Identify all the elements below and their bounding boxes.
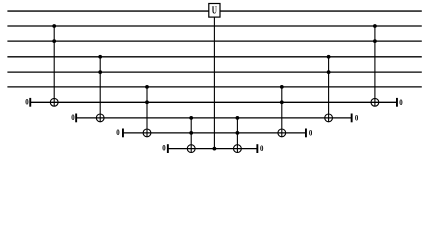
- ancilla A3 left |0> preparation bar: [122, 129, 124, 138]
- ancilla A2 left |0> preparation bar: [75, 114, 77, 123]
- toffoli T2m control dot on q4: [327, 55, 331, 59]
- svg-text:0: 0: [25, 97, 28, 106]
- ancilla A2 right termination bar: [351, 114, 353, 123]
- svg-text:0: 0: [162, 144, 165, 153]
- toffoli T1 vertical wire: [53, 26, 55, 106]
- svg-text:0: 0: [355, 113, 358, 122]
- toffoli T1 control dot on q2: [52, 24, 56, 28]
- toffoli T2 target on A2: [96, 114, 104, 122]
- toffoli T4m target on A4: [234, 145, 242, 153]
- toffoli T1m vertical wire (uncompute): [374, 26, 376, 106]
- toffoli T1m control dot on q3: [373, 39, 377, 43]
- toffoli T3m vertical wire (uncompute): [281, 87, 283, 137]
- svg-text:U: U: [212, 5, 217, 16]
- ancilla A1 right termination bar: [396, 98, 398, 107]
- toffoli T4m control dot on A2: [236, 116, 240, 120]
- svg-text:0: 0: [116, 128, 119, 137]
- toffoli T3 control dot on q6: [145, 85, 149, 89]
- ancilla A3 right termination bar: [305, 129, 307, 138]
- toffoli T4 control dot on A2: [189, 116, 193, 120]
- toffoli T3m control dot on A1: [280, 100, 284, 104]
- toffoli T1m control dot on q2: [373, 24, 377, 28]
- ancilla wire A4: [168, 148, 258, 150]
- toffoli T4 target on A4: [187, 145, 195, 153]
- qubit wire q6: [7, 86, 421, 88]
- controlled-U control dot on A4: [213, 147, 217, 151]
- toffoli T4 control dot on A3: [189, 131, 193, 135]
- ancilla wire A3: [123, 132, 306, 134]
- toffoli T3m control dot on q6: [280, 85, 284, 89]
- controlled-U vertical wire: [213, 17, 215, 149]
- toffoli T3 target on A3: [143, 129, 151, 137]
- svg-text:0: 0: [399, 98, 402, 107]
- svg-text:0: 0: [71, 113, 74, 122]
- ancilla wire A2: [76, 117, 352, 119]
- svg-text:0: 0: [309, 128, 312, 137]
- toffoli T2m control dot on q5: [327, 70, 331, 74]
- toffoli T3m target on A3: [278, 129, 286, 137]
- toffoli T4m control dot on A3: [236, 131, 240, 135]
- toffoli T4m vertical wire (uncompute): [236, 118, 238, 153]
- toffoli T2 control dot on q4: [98, 55, 102, 59]
- toffoli T2m vertical wire (uncompute): [328, 57, 330, 122]
- toffoli T1m target on A1: [371, 98, 379, 106]
- toffoli T3 control dot on A1: [145, 100, 149, 104]
- toffoli T2m target on A2: [325, 114, 333, 122]
- toffoli T1 control dot on q3: [52, 39, 56, 43]
- ancilla wire A1: [30, 101, 397, 103]
- svg-text:0: 0: [260, 144, 263, 153]
- toffoli T4 vertical wire: [190, 118, 192, 153]
- qubit wire q2: [7, 25, 421, 27]
- qubit wire q4: [7, 56, 421, 58]
- qubit wire q1: [7, 10, 421, 12]
- toffoli T2 vertical wire: [99, 57, 101, 122]
- toffoli T3 vertical wire: [146, 87, 148, 137]
- gate box U on q1: [209, 4, 220, 18]
- ancilla A1 left |0> preparation bar: [29, 98, 31, 107]
- ancilla A4 right termination bar: [256, 144, 258, 153]
- ancilla A4 left |0> preparation bar: [167, 144, 169, 153]
- toffoli T2 control dot on q5: [98, 70, 102, 74]
- toffoli T1 target on A1: [50, 98, 58, 106]
- qubit wire q5: [7, 71, 421, 73]
- qubit wire q3: [7, 40, 421, 42]
